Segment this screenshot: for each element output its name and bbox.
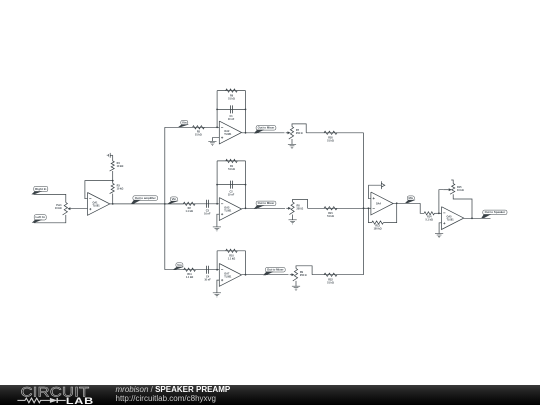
- svg-text:Out to Mixer: Out to Mixer: [258, 127, 275, 130]
- svg-text:Out to Mixer: Out to Mixer: [267, 269, 284, 272]
- svg-text:1.1 kΩ: 1.1 kΩ: [186, 276, 193, 279]
- svg-text:Vin: Vin: [182, 121, 187, 124]
- svg-text:Mix: Mix: [409, 197, 414, 200]
- svg-text:51 kΩ: 51 kΩ: [195, 133, 202, 136]
- svg-text:Vin: Vin: [177, 264, 182, 267]
- svg-text:Vin: Vin: [172, 198, 177, 201]
- svg-text:TL081: TL081: [224, 275, 232, 278]
- svg-text:250 Ω: 250 Ω: [300, 274, 307, 277]
- svg-text:10 nF: 10 nF: [228, 118, 235, 121]
- svg-text:51 kΩ: 51 kΩ: [327, 281, 334, 284]
- svg-text:TL081: TL081: [447, 219, 455, 222]
- svg-text:Out to Speaker: Out to Speaker: [485, 211, 505, 214]
- svg-text:10 kΩ: 10 kΩ: [117, 187, 124, 190]
- svg-text:LAB: LAB: [66, 396, 94, 405]
- svg-text:TL081: TL081: [224, 209, 232, 212]
- svg-text:10 kΩ: 10 kΩ: [55, 207, 62, 210]
- svg-text:100 kΩ: 100 kΩ: [374, 228, 382, 231]
- svg-text:51 kΩ: 51 kΩ: [228, 98, 235, 101]
- svg-text:10 nF: 10 nF: [228, 193, 235, 196]
- svg-text:51 kΩ: 51 kΩ: [228, 168, 235, 171]
- svg-text:10 kΩ: 10 kΩ: [457, 189, 464, 192]
- svg-text:51 kΩ: 51 kΩ: [327, 215, 334, 218]
- svg-text:Out to Mixer: Out to Mixer: [258, 202, 275, 205]
- svg-text:TL081: TL081: [93, 204, 101, 207]
- svg-text:10 kΩ: 10 kΩ: [117, 165, 124, 168]
- svg-text:1.1 kΩ: 1.1 kΩ: [186, 210, 193, 213]
- svg-text:10 nF: 10 nF: [204, 278, 211, 281]
- svg-text:OA4: OA4: [376, 203, 382, 206]
- svg-text:51 kΩ: 51 kΩ: [327, 140, 334, 143]
- svg-text:5.1 kΩ: 5.1 kΩ: [426, 218, 433, 221]
- svg-text:Out to amplifier: Out to amplifier: [135, 197, 156, 200]
- svg-text:TL081: TL081: [224, 133, 232, 136]
- svg-text:Right In: Right In: [35, 188, 47, 191]
- svg-text:Left In: Left In: [36, 216, 46, 219]
- svg-text:1.1 kΩ: 1.1 kΩ: [228, 258, 235, 261]
- svg-text:250 Ω: 250 Ω: [297, 208, 304, 211]
- svg-text:10 nF: 10 nF: [204, 213, 211, 216]
- svg-text:250 Ω: 250 Ω: [296, 132, 303, 135]
